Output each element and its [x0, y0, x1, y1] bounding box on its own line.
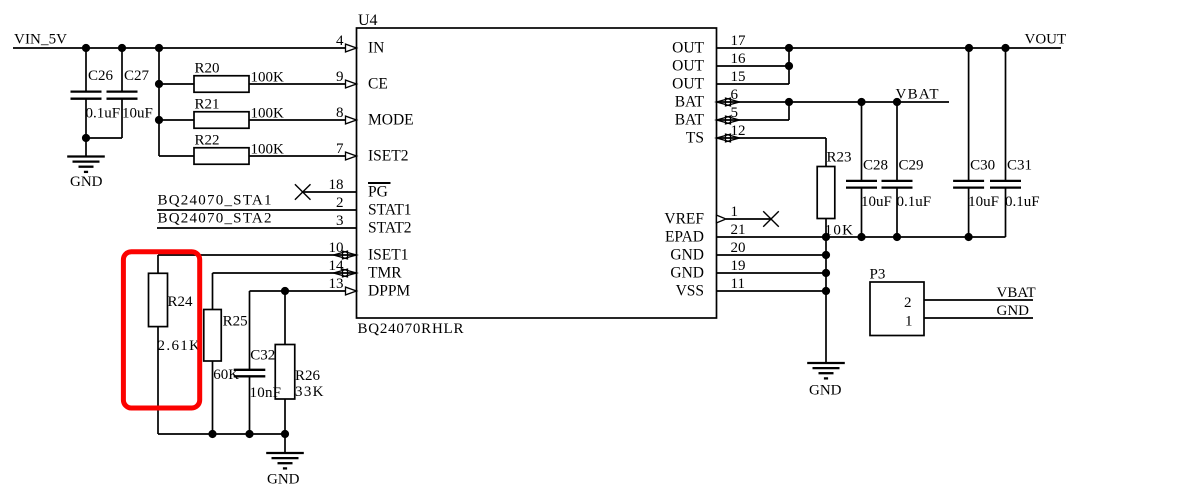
- svg-text:OUT: OUT: [672, 76, 704, 93]
- svg-text:VREF: VREF: [664, 211, 704, 228]
- svg-text:100K: 100K: [251, 70, 285, 86]
- svg-text:16: 16: [731, 51, 747, 67]
- svg-text:1: 1: [731, 204, 739, 220]
- svg-text:GND: GND: [809, 383, 842, 399]
- svg-text:3: 3: [336, 213, 344, 229]
- svg-text:BAT: BAT: [675, 94, 705, 111]
- svg-text:19: 19: [731, 258, 746, 274]
- svg-text:ISET2: ISET2: [368, 148, 408, 165]
- svg-text:11: 11: [731, 276, 745, 292]
- svg-text:R20: R20: [195, 61, 220, 77]
- svg-text:BQ24070RHLR: BQ24070RHLR: [358, 321, 464, 337]
- svg-text:7: 7: [336, 141, 344, 157]
- svg-text:P3: P3: [870, 267, 886, 283]
- svg-text:R23: R23: [827, 150, 852, 166]
- svg-text:ISET1: ISET1: [368, 247, 408, 264]
- svg-text:2: 2: [336, 195, 344, 211]
- svg-text:VBAT: VBAT: [896, 87, 939, 103]
- svg-text:OUT: OUT: [672, 40, 704, 57]
- svg-text:C29: C29: [899, 158, 924, 174]
- svg-text:GND: GND: [997, 303, 1030, 319]
- svg-text:1: 1: [905, 314, 913, 330]
- svg-text:C26: C26: [88, 68, 114, 84]
- svg-text:GND: GND: [70, 174, 103, 190]
- svg-text:OUT: OUT: [672, 58, 704, 75]
- svg-text:9: 9: [336, 69, 344, 85]
- svg-text:R24: R24: [168, 294, 194, 310]
- svg-text:10uF: 10uF: [968, 194, 999, 210]
- svg-text:TS: TS: [686, 130, 704, 147]
- svg-text:2: 2: [904, 295, 912, 311]
- svg-text:10uF: 10uF: [122, 106, 153, 122]
- svg-text:21: 21: [731, 222, 746, 238]
- svg-text:8: 8: [336, 105, 344, 121]
- svg-text:U4: U4: [358, 12, 378, 29]
- svg-text:15: 15: [731, 69, 746, 85]
- svg-text:10uF: 10uF: [861, 194, 892, 210]
- svg-text:GND: GND: [267, 472, 300, 488]
- svg-text:STAT2: STAT2: [368, 220, 412, 237]
- svg-text:100K: 100K: [251, 142, 285, 158]
- svg-text:C32: C32: [250, 348, 275, 364]
- svg-text:R22: R22: [195, 133, 220, 149]
- svg-text:13: 13: [329, 276, 344, 292]
- svg-text:VIN_5V: VIN_5V: [14, 32, 67, 48]
- svg-text:C30: C30: [970, 158, 995, 174]
- svg-text:100K: 100K: [251, 106, 285, 122]
- svg-text:C28: C28: [863, 158, 888, 174]
- svg-text:R25: R25: [223, 314, 248, 330]
- svg-text:4: 4: [336, 33, 344, 49]
- svg-text:0.1uF: 0.1uF: [86, 106, 121, 122]
- svg-text:0.1uF: 0.1uF: [897, 194, 932, 210]
- svg-text:PG: PG: [368, 184, 388, 201]
- svg-text:2.61K: 2.61K: [158, 338, 201, 354]
- svg-text:R26: R26: [295, 368, 321, 384]
- svg-text:IN: IN: [368, 40, 384, 57]
- svg-text:18: 18: [329, 177, 344, 193]
- svg-text:17: 17: [731, 33, 747, 49]
- svg-text:0.1uF: 0.1uF: [1005, 194, 1040, 210]
- svg-text:CE: CE: [368, 76, 388, 93]
- svg-text:GND: GND: [670, 265, 704, 282]
- svg-text:STAT1: STAT1: [368, 202, 412, 219]
- svg-text:VOUT: VOUT: [1025, 32, 1067, 48]
- svg-text:MODE: MODE: [368, 112, 414, 129]
- svg-text:BAT: BAT: [675, 112, 705, 129]
- svg-text:VSS: VSS: [676, 283, 704, 300]
- svg-text:EPAD: EPAD: [665, 229, 704, 246]
- svg-text:GND: GND: [670, 247, 704, 264]
- svg-text:20: 20: [731, 240, 746, 256]
- svg-text:TMR: TMR: [368, 265, 402, 282]
- svg-text:R21: R21: [195, 97, 220, 113]
- svg-text:33K: 33K: [295, 384, 324, 400]
- svg-text:C31: C31: [1007, 158, 1032, 174]
- svg-text:C27: C27: [124, 68, 150, 84]
- svg-text:10: 10: [329, 240, 344, 256]
- svg-text:VBAT: VBAT: [997, 285, 1036, 301]
- svg-text:DPPM: DPPM: [368, 283, 410, 300]
